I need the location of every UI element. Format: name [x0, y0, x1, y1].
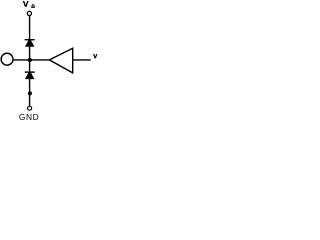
wire VA terminal to D1 cathode [29, 16, 31, 40]
diode D1 [25, 39, 35, 47]
label VA [23, 1, 35, 8]
label V output [93, 54, 97, 58]
terminal GND [28, 106, 32, 110]
source circle [1, 53, 13, 65]
terminal VA [27, 11, 31, 15]
wire D1 anode to node A [29, 47, 31, 61]
wire node A to buffer input [30, 59, 49, 61]
wire buffer to V output [73, 59, 91, 61]
node A junction [28, 58, 32, 62]
wire source to node A [13, 59, 30, 61]
wire node A to D2 cathode [29, 60, 31, 72]
diode D2 [25, 71, 35, 79]
node GND junction [28, 91, 32, 95]
wire D2 anode to GND terminal [29, 79, 31, 106]
svg-text:GND: GND [19, 112, 39, 122]
op-amp U1 buffer [49, 48, 72, 73]
